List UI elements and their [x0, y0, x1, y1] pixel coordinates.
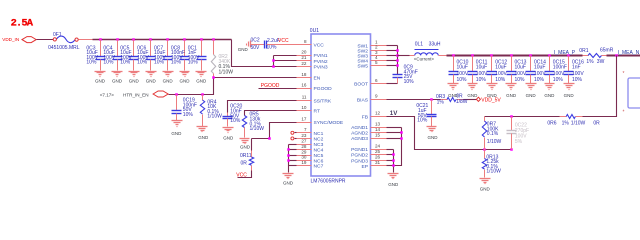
svg-text:LM76005RNPR: LM76005RNPR [311, 178, 346, 184]
svg-text:24: 24 [375, 143, 381, 148]
svg-text:50V: 50V [251, 45, 261, 51]
svg-text:1/10W: 1/10W [487, 139, 502, 145]
svg-text:10uF: 10uF [534, 65, 545, 71]
wire EN net [169, 78, 297, 95]
svg-text:EN: EN [314, 76, 321, 82]
capacitor C20 10nF soft-start [227, 113, 229, 117]
resistor R6 0R sense link [560, 116, 567, 118]
svg-text:29: 29 [301, 149, 307, 154]
svg-text:GND: GND [506, 93, 517, 98]
capacitor 0C11 10uF output [472, 56, 474, 72]
wire SS/TRK net [228, 101, 297, 113]
svg-text:19: 19 [301, 160, 307, 165]
junction EN net dots [212, 76, 215, 79]
svg-text:NC6: NC6 [314, 158, 324, 164]
resistor R7 100K feedback upper [484, 117, 486, 122]
junction C22 top dot [510, 115, 513, 118]
wire NC2 no-connect [295, 138, 297, 140]
svg-text:AGND1: AGND1 [351, 125, 368, 131]
svg-text:GND: GND [223, 135, 234, 140]
svg-text:12: 12 [375, 111, 381, 116]
svg-text:10%: 10% [171, 60, 182, 66]
svg-text:21: 21 [301, 55, 307, 60]
inductor L1 33uH [398, 55, 410, 57]
svg-text:SW2: SW2 [357, 48, 368, 54]
svg-text:AGND2: AGND2 [351, 131, 368, 137]
svg-text:65mR: 65mR [600, 48, 614, 54]
capacitor 0C3 10uF input [100, 40, 102, 57]
svg-text:10%: 10% [183, 112, 194, 118]
junction SW bus dots [396, 49, 399, 52]
svg-text:NC7: NC7 [314, 164, 324, 170]
svg-text:VDD_IN: VDD_IN [2, 37, 19, 42]
svg-text:7: 7 [304, 127, 307, 132]
svg-text:PVIN3: PVIN3 [314, 65, 328, 71]
capacitor 0C13 10uF output [511, 56, 513, 72]
svg-text:8: 8 [304, 39, 307, 44]
svg-text:GND: GND [467, 93, 478, 98]
svg-text:GND: GND [112, 79, 123, 84]
svg-text:GND: GND [564, 93, 575, 98]
svg-text:100V: 100V [534, 71, 546, 77]
svg-text:HTR_IN_EN: HTR_IN_EN [123, 92, 149, 97]
svg-text:1/8W: 1/8W [456, 99, 468, 105]
wire PVIN bus [273, 56, 275, 67]
svg-text:PGND2: PGND2 [351, 153, 368, 159]
svg-text:GND: GND [388, 182, 399, 187]
resistor R5 130k RT [242, 116, 246, 128]
svg-text:2.5A: 2.5A [11, 18, 34, 30]
svg-text:0.1%: 0.1% [487, 131, 499, 137]
svg-text:1/10W: 1/10W [219, 69, 234, 75]
svg-text:11: 11 [302, 95, 307, 100]
capacitor C9 470nF bootstrap [393, 74, 403, 76]
wire FB net [387, 117, 512, 150]
wire output rail VOUT [447, 55, 583, 57]
svg-text:100nF: 100nF [553, 65, 567, 71]
svg-text:PVIN2: PVIN2 [314, 59, 328, 65]
junction dots output rail [452, 54, 455, 57]
port VDD_5V [476, 97, 480, 101]
wire SW bus [387, 45, 398, 47]
svg-text:VCC: VCC [278, 38, 289, 44]
svg-text:100V: 100V [553, 71, 565, 77]
svg-text:9: 9 [375, 94, 378, 99]
svg-text:GND: GND [198, 135, 209, 140]
svg-text:13: 13 [375, 121, 381, 126]
svg-text:GND: GND [163, 79, 174, 84]
svg-text:5: 5 [375, 60, 378, 65]
svg-text:5%: 5% [515, 139, 523, 145]
capacitor C2 2.2uF VCC decoupling with ground [251, 44, 265, 46]
svg-text:1nF: 1nF [572, 65, 581, 71]
svg-text:I_MEA_N: I_MEA_N [618, 50, 640, 56]
capacitor 0C14 10uF output [530, 56, 532, 72]
svg-text:1/10W: 1/10W [207, 114, 222, 120]
svg-text:BOOT: BOOT [354, 82, 368, 88]
capacitor 0C16 1nF output [568, 56, 570, 72]
svg-text:SW5: SW5 [357, 64, 368, 70]
svg-text:GND: GND [544, 93, 555, 98]
resistor R13 1.25k feedback lower [484, 150, 486, 159]
svg-text:27: 27 [301, 138, 307, 143]
svg-text:10%: 10% [103, 60, 114, 66]
svg-text:*: * [623, 110, 625, 116]
svg-text:0U1: 0U1 [310, 28, 319, 34]
capacitor C22 270pF DNP [511, 117, 513, 131]
wire AGND bus [387, 127, 402, 129]
svg-text:1V: 1V [390, 110, 398, 117]
svg-text:PGND3: PGND3 [351, 158, 368, 164]
svg-text:GND: GND [146, 79, 157, 84]
svg-text:100V: 100V [495, 71, 507, 77]
svg-text:1%: 1% [562, 120, 570, 126]
svg-text:I_MEA_P: I_MEA_P [554, 50, 576, 56]
svg-text:<7.17>: <7.17> [100, 92, 115, 97]
svg-text:10%: 10% [495, 77, 506, 83]
capacitor 0C1 1nF input [201, 40, 203, 57]
svg-text:GND: GND [196, 79, 207, 84]
svg-text:0C2: 0C2 [251, 37, 260, 43]
resistor R11 0R sync pull-up to VCC power port [251, 139, 253, 151]
junction dots input rail [99, 38, 102, 41]
svg-text:10%: 10% [188, 60, 199, 66]
junction FB node dots [483, 148, 486, 151]
resistor R4 10K [202, 95, 204, 101]
svg-text:GND: GND [480, 187, 491, 192]
capacitor 0C4 10uF input [117, 40, 119, 57]
svg-text:GND: GND [526, 93, 537, 98]
junction PGND dots [392, 153, 395, 156]
svg-text:10%: 10% [137, 60, 148, 66]
svg-text:1%: 1% [586, 59, 594, 65]
resistor R3 0R bias feed [441, 99, 448, 101]
wire SYNC/MODE net [252, 123, 297, 139]
capacitor 0C7 10uF input [167, 40, 169, 57]
svg-text:0451005.MRL: 0451005.MRL [48, 45, 80, 51]
svg-text:100V: 100V [572, 71, 584, 77]
svg-text:25: 25 [375, 149, 381, 154]
junction BIAS dot [430, 98, 433, 101]
svg-text:10%: 10% [120, 60, 131, 66]
svg-text:BIAS: BIAS [357, 97, 369, 103]
svg-text:VCC: VCC [236, 172, 247, 178]
capacitor C21 1uF bias [431, 100, 433, 115]
svg-text:10uF: 10uF [495, 65, 506, 71]
capacitor 0C15 100nF output [549, 56, 551, 72]
svg-text:GND: GND [428, 135, 439, 140]
svg-text:FB: FB [362, 114, 368, 120]
svg-text:100V: 100V [476, 71, 488, 77]
U1 left pin stubs [297, 44, 312, 46]
svg-text:1/10W: 1/10W [486, 169, 501, 175]
svg-text:SW3: SW3 [357, 54, 368, 60]
U1 right pin stubs [371, 45, 387, 47]
svg-text:10%: 10% [86, 60, 97, 66]
svg-text:GND: GND [240, 145, 251, 150]
svg-text:VDD_5V: VDD_5V [481, 97, 501, 103]
wire RT net [245, 111, 297, 116]
svg-text:10uF: 10uF [457, 65, 468, 71]
svg-text:31: 31 [375, 160, 381, 165]
svg-text:1%: 1% [437, 100, 445, 106]
svg-text:NC4: NC4 [314, 148, 324, 154]
wire input rail VIN [79, 39, 93, 41]
svg-text:10%: 10% [534, 77, 545, 83]
svg-text:SYNC/MODE: SYNC/MODE [314, 120, 344, 126]
wire NC1 no-connect [295, 132, 297, 134]
svg-text:SW4: SW4 [357, 59, 368, 65]
ground EP PGND [388, 173, 399, 175]
svg-text:10%: 10% [154, 60, 165, 66]
svg-text:10%: 10% [553, 77, 564, 83]
svg-text:16: 16 [301, 82, 307, 87]
svg-text:18: 18 [301, 72, 307, 77]
wire NC bus to ground [288, 145, 290, 166]
svg-text:GND: GND [238, 47, 249, 52]
svg-text:33uH: 33uH [429, 41, 441, 47]
capacitor 0C12 10uF output [491, 56, 493, 72]
capacitor 0C10 10uF output [453, 56, 455, 72]
svg-text:10%: 10% [515, 77, 526, 83]
wire VOUT sense to divider [583, 56, 617, 117]
svg-text:GND: GND [95, 79, 106, 84]
svg-text:6: 6 [375, 78, 378, 83]
svg-text:GND: GND [283, 180, 294, 185]
svg-text:NC1: NC1 [314, 131, 324, 137]
svg-text:100V: 100V [457, 71, 469, 77]
svg-text:10%: 10% [457, 77, 468, 83]
svg-text:0R: 0R [241, 161, 248, 167]
svg-text:10uF: 10uF [476, 65, 487, 71]
svg-text:28: 28 [301, 144, 307, 149]
svg-text:0L1: 0L1 [415, 41, 424, 47]
svg-text:10uF: 10uF [515, 65, 526, 71]
junction AGND dots [400, 131, 403, 134]
capacitor 0C8 100nF input [184, 40, 186, 57]
svg-text:GND: GND [171, 131, 182, 136]
svg-text:*: * [623, 71, 625, 77]
svg-text:PGOOD: PGOOD [261, 83, 280, 89]
wire PGOOD net [259, 88, 297, 90]
svg-text:AGND3: AGND3 [351, 136, 368, 142]
svg-text:10%: 10% [267, 45, 278, 51]
junction PVIN bus dots [272, 59, 275, 62]
op-amp U1 LM76005 regulator box [311, 34, 371, 176]
svg-text:100V: 100V [515, 71, 527, 77]
svg-text:1/10W: 1/10W [250, 126, 265, 132]
svg-text:1/10W: 1/10W [571, 120, 586, 126]
ground NC bus [283, 173, 294, 175]
svg-text:0R: 0R [593, 120, 600, 126]
svg-text:10%: 10% [417, 118, 428, 124]
svg-text:PVIN1: PVIN1 [314, 53, 328, 59]
svg-text:PGOOD: PGOOD [314, 86, 333, 92]
svg-text:0R11: 0R11 [240, 153, 252, 159]
svg-text:GND: GND [180, 79, 191, 84]
resistor R2 340K DNP enable divider [213, 40, 215, 55]
svg-text:<Current>: <Current> [414, 56, 435, 61]
svg-text:NC5: NC5 [314, 153, 324, 159]
capacitor 0C6 10uF input [150, 40, 152, 57]
junction NC bus dots [287, 148, 290, 151]
sheet symbol partial right edge [628, 78, 640, 108]
svg-text:NC2: NC2 [314, 137, 324, 143]
svg-text:10%: 10% [476, 77, 487, 83]
svg-text:20: 20 [301, 49, 307, 54]
svg-text:PGND1: PGND1 [351, 147, 368, 153]
svg-text:0R1: 0R1 [579, 48, 588, 54]
svg-text:22: 22 [301, 61, 307, 66]
wire VDD_IN to fuse [37, 39, 54, 41]
capacitor 0C5 10uF input [133, 40, 135, 57]
svg-text:26: 26 [375, 155, 381, 160]
svg-text:0R6: 0R6 [547, 120, 556, 126]
svg-text:17: 17 [301, 116, 307, 121]
resistor R1 65mR current shunt [583, 55, 589, 57]
svg-text:VCC: VCC [314, 43, 325, 49]
svg-text:RT: RT [314, 109, 320, 115]
svg-text:30: 30 [301, 155, 307, 160]
svg-text:10%: 10% [572, 77, 583, 83]
svg-text:23: 23 [301, 133, 307, 138]
svg-text:10%: 10% [404, 79, 415, 85]
svg-text:10: 10 [301, 105, 307, 110]
svg-text:15: 15 [375, 132, 381, 137]
svg-text:EP: EP [361, 164, 368, 170]
svg-text:SS/TRK: SS/TRK [314, 98, 332, 104]
svg-text:GND: GND [129, 79, 140, 84]
junction SYNC corner dot [268, 137, 271, 140]
wire PGND bus [387, 149, 394, 151]
wire BIAS net [387, 99, 441, 101]
svg-text:NC3: NC3 [314, 142, 324, 148]
svg-text:10%: 10% [230, 118, 241, 124]
svg-text:3W: 3W [597, 59, 605, 65]
svg-text:SW1: SW1 [357, 43, 368, 49]
capacitor C19 100nF [176, 95, 178, 111]
svg-text:14: 14 [375, 127, 381, 132]
wire VCC net to pin 8 [267, 44, 312, 46]
